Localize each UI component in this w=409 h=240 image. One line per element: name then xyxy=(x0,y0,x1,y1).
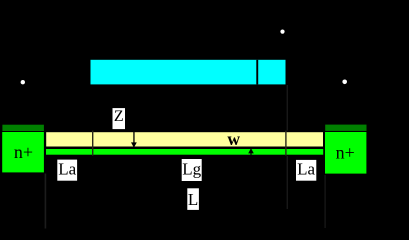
svg-text:La: La xyxy=(297,160,315,179)
svg-text:Z: Z xyxy=(114,108,124,125)
svg-text:La: La xyxy=(58,160,76,179)
svg-text:L: L xyxy=(188,190,198,209)
svg-text:n+: n+ xyxy=(14,142,33,162)
svg-text:n+: n+ xyxy=(336,142,355,162)
svg-text:Lg: Lg xyxy=(182,160,201,179)
svg-text:w: w xyxy=(227,129,240,149)
